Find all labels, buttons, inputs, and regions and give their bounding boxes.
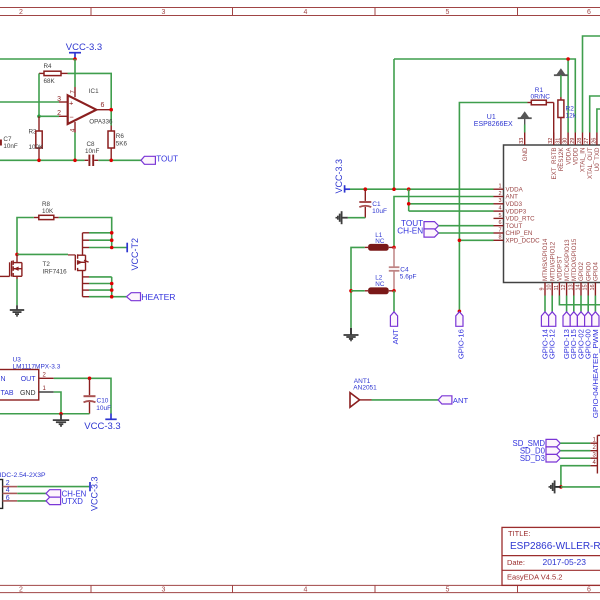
port GPIO-00 xyxy=(584,312,593,359)
svg-text:10uF: 10uF xyxy=(372,208,387,215)
capacitor C10 10uF xyxy=(84,378,112,413)
power flag VCC-3.3 rotated at pin1 xyxy=(334,159,350,194)
svg-text:1: 1 xyxy=(498,184,501,190)
antenna ANT1 AN2051 xyxy=(350,378,377,407)
power flag VCC-3.3 rotated at IDC xyxy=(89,476,99,511)
svg-text:5: 5 xyxy=(446,9,450,16)
node L1/ANT junction xyxy=(392,246,396,250)
wire U3 OUT to VCC xyxy=(54,378,111,413)
svg-text:13: 13 xyxy=(568,284,574,290)
wire GPIO-02 pin to port xyxy=(580,296,582,312)
title block xyxy=(502,527,600,585)
node R3 bottom junction xyxy=(37,159,41,163)
svg-text:TOUT: TOUT xyxy=(506,223,523,230)
port GPIO-14 xyxy=(540,312,549,359)
svg-text:R8: R8 xyxy=(42,201,51,208)
pin 10 MTDI/GPIO12 xyxy=(547,241,557,295)
wire VCC down to pin1 row xyxy=(393,59,395,189)
pin 2 ANT xyxy=(494,191,519,201)
port HEATER xyxy=(127,292,176,302)
pin 12 MTCK/GPIO13 xyxy=(561,239,571,296)
svg-text:XTAL_OUT: XTAL_OUT xyxy=(587,147,594,179)
wire op-amp pin4 to rail xyxy=(74,133,76,161)
port CH-EN xyxy=(46,489,86,498)
svg-text:R6: R6 xyxy=(116,133,125,140)
svg-text:6: 6 xyxy=(587,587,591,594)
node VCC top junction xyxy=(566,57,570,61)
svg-text:7: 7 xyxy=(498,227,501,233)
svg-text:VCC-3.3: VCC-3.3 xyxy=(84,421,120,432)
svg-text:TAB: TAB xyxy=(1,390,14,397)
svg-text:U1: U1 xyxy=(487,114,496,121)
svg-text:10K: 10K xyxy=(42,208,54,215)
wire VDD3/VDDP3 branch xyxy=(409,189,494,211)
svg-text:VDD_RTC: VDD_RTC xyxy=(506,216,536,223)
wire op-amp non-inverting input xyxy=(0,101,59,103)
svg-text:3: 3 xyxy=(498,198,501,204)
svg-text:MTDI/GPIO12: MTDI/GPIO12 xyxy=(549,241,556,281)
svg-text:GPIO4: GPIO4 xyxy=(593,262,600,281)
svg-text:2: 2 xyxy=(19,587,23,594)
wire SD_D3 to pin3 xyxy=(560,457,590,459)
svg-text:6: 6 xyxy=(101,102,105,109)
svg-text:15: 15 xyxy=(583,284,589,290)
power flag VCC-3.3 below U3 xyxy=(84,414,120,432)
wire ground row to right edge xyxy=(561,486,600,488)
svg-text:IC1: IC1 xyxy=(89,88,99,95)
wire L2 left lead xyxy=(351,290,365,292)
capacitor C4 5.6pF xyxy=(389,247,417,290)
capacitor C1 10uF xyxy=(359,189,387,218)
svg-text:XPD_DCDC: XPD_DCDC xyxy=(506,238,541,245)
pin 14 GPIO2 xyxy=(576,262,586,296)
svg-text:10uF: 10uF xyxy=(96,405,111,412)
svg-text:ESP8266EX: ESP8266EX xyxy=(474,121,513,128)
svg-text:ANT: ANT xyxy=(506,194,519,201)
svg-text:27: 27 xyxy=(584,138,590,144)
sheet border frame top band xyxy=(0,8,600,17)
svg-text:OUT: OUT xyxy=(21,376,37,383)
svg-text:+: + xyxy=(69,98,74,107)
svg-text:2017-05-23: 2017-05-23 xyxy=(543,557,587,567)
svg-text:U0_TXD: U0_TXD xyxy=(594,147,600,171)
wire Q1 source to ground xyxy=(16,279,18,305)
svg-text:OPA336: OPA336 xyxy=(89,118,113,125)
port GPIO-04/HEATER_PWM xyxy=(591,312,600,418)
ground below U3 xyxy=(53,414,69,426)
wire R4 to output node xyxy=(68,73,112,125)
port GPIO-02 xyxy=(576,312,585,359)
svg-text:SD_D3: SD_D3 xyxy=(520,454,545,463)
svg-text:10: 10 xyxy=(547,284,553,290)
svg-text:EasyEDA V4.5.2: EasyEDA V4.5.2 xyxy=(507,573,562,582)
svg-text:VDD3: VDD3 xyxy=(506,201,523,208)
pin 28 XTAL_IN xyxy=(577,133,587,173)
resistor R3 100K xyxy=(29,116,45,160)
wire antenna to ANT port xyxy=(372,399,439,401)
svg-text:MTCK/GPIO13: MTCK/GPIO13 xyxy=(564,239,571,281)
svg-text:VCC-3.3: VCC-3.3 xyxy=(89,476,99,511)
svg-text:HEATER: HEATER xyxy=(141,292,175,302)
svg-text:16: 16 xyxy=(590,284,596,290)
wire gate row to T2 xyxy=(17,253,68,255)
svg-text:3: 3 xyxy=(57,96,61,103)
wire GPIO-14 pin to port xyxy=(544,296,546,312)
capacitor C8 10nF xyxy=(85,141,100,166)
node ground rail junction xyxy=(59,412,63,416)
regulator U3 LM1117MPX-3.3 xyxy=(0,356,61,400)
svg-text:10nF: 10nF xyxy=(85,148,100,155)
svg-text:T2: T2 xyxy=(43,261,51,268)
ground at SD (left) xyxy=(549,480,561,493)
wire drain rows to bus xyxy=(89,233,127,248)
wire bottom rail left xyxy=(0,159,85,161)
svg-text:VCC-3.3: VCC-3.3 xyxy=(334,159,344,194)
node C10 junction xyxy=(88,377,92,381)
pin 16 GPIO4 xyxy=(590,262,600,296)
svg-text:N: N xyxy=(1,376,6,383)
pin 9 MTMS/GPIO14 xyxy=(540,238,550,295)
pin 27 XTAL_OUT xyxy=(584,133,594,180)
wire GPIO-00 pin to port xyxy=(587,296,589,312)
node op-amp output junction xyxy=(109,108,113,112)
svg-text:GPIO-12: GPIO-12 xyxy=(548,329,557,359)
pin 11 VDDPST xyxy=(554,256,564,296)
svg-text:NC: NC xyxy=(375,281,385,288)
svg-text:C1: C1 xyxy=(372,201,381,208)
port SD_SMD xyxy=(513,439,561,448)
svg-text:26: 26 xyxy=(591,138,597,144)
ground below L1/L2 xyxy=(344,328,359,341)
wire ANT down to port xyxy=(393,291,395,312)
svg-text:ESP2866-WLLER-RTD: ESP2866-WLLER-RTD xyxy=(510,541,600,552)
svg-text:ANT: ANT xyxy=(391,329,400,345)
connector P1 IDC-2.54-2X3P (cropped) xyxy=(0,472,46,508)
port GPIO-13 xyxy=(562,312,571,359)
svg-text:100K: 100K xyxy=(29,144,45,151)
port GPIO-16 (down) xyxy=(456,312,466,359)
pin 7 CHIP_EN xyxy=(494,227,533,237)
ground under Q1 xyxy=(10,305,24,316)
wire VDDA pin1 row xyxy=(350,188,494,190)
wire R4 left to inverting node xyxy=(38,73,40,116)
svg-text:4: 4 xyxy=(304,587,308,594)
svg-text:14: 14 xyxy=(576,284,582,290)
resistor R4 68K xyxy=(39,63,68,85)
svg-text:3: 3 xyxy=(162,9,166,16)
port TOUT / CH-EN double xyxy=(397,219,438,237)
svg-text:GND: GND xyxy=(20,390,36,397)
svg-text:VDDD: VDDD xyxy=(573,147,580,165)
wire U3 ground rail xyxy=(0,413,90,415)
wire R1 left to GPIO16 net xyxy=(459,103,527,312)
svg-text:5: 5 xyxy=(446,587,450,594)
svg-text:GND: GND xyxy=(522,147,529,161)
svg-text:VCC-3.3: VCC-3.3 xyxy=(66,42,102,53)
wire pin6 to UTXD xyxy=(17,500,46,502)
svg-text:TITLE:: TITLE: xyxy=(508,529,531,538)
svg-text:2: 2 xyxy=(57,110,61,117)
port SD_D3 xyxy=(520,454,560,463)
svg-text:33: 33 xyxy=(519,138,525,144)
svg-text:VDDP3: VDDP3 xyxy=(506,208,527,215)
wire GPIO-04 pin to port xyxy=(594,296,596,312)
node L2/ANT junction xyxy=(392,289,396,293)
svg-text:IRF7416: IRF7416 xyxy=(43,269,68,276)
svg-text:4: 4 xyxy=(304,9,308,16)
svg-text:9: 9 xyxy=(540,287,546,290)
port ANT (down) xyxy=(390,312,400,345)
svg-text:10nF: 10nF xyxy=(3,143,18,150)
svg-text:68K: 68K xyxy=(44,78,56,85)
pin 30 VDDA xyxy=(563,133,573,165)
power flag VCC-T2 rotated xyxy=(127,238,140,271)
port ANT (left) xyxy=(438,396,468,405)
svg-text:CHIP_EN: CHIP_EN xyxy=(506,230,533,237)
node SD ground junction xyxy=(559,485,563,489)
power flag VCC-3.3 xyxy=(66,42,102,58)
pin 33 GND xyxy=(519,133,529,162)
node gate junction xyxy=(15,253,19,257)
wire U0_TXD to right edge xyxy=(597,109,600,133)
node R6 bottom junction xyxy=(109,159,113,163)
ground left of C1 xyxy=(336,211,347,224)
pin 29 VDDD xyxy=(570,133,580,166)
node source bus junctions xyxy=(110,282,114,286)
svg-text:30: 30 xyxy=(563,138,569,144)
wire GPIO-13 pin to port xyxy=(566,296,568,312)
svg-text:31: 31 xyxy=(555,138,561,144)
svg-text:CH-EN: CH-EN xyxy=(397,227,423,236)
pin 13 MTDO/GPIO15 xyxy=(568,238,578,295)
wire C1 to ground xyxy=(348,217,366,219)
transistor T2 IRF7416 xyxy=(43,233,90,297)
wire SD_D0 to pin2 xyxy=(560,450,590,452)
connector SD card (cropped) xyxy=(590,435,600,473)
wire XTAL_OUT to right edge xyxy=(590,96,600,133)
pin 1 VDDA xyxy=(494,184,524,194)
svg-text:5: 5 xyxy=(498,213,501,219)
svg-text:GPIO2: GPIO2 xyxy=(578,262,585,281)
inductor L2 NC xyxy=(365,275,394,295)
wire R8 right to drain bus xyxy=(59,218,112,233)
wire GPIO-15 pin to port xyxy=(573,296,575,312)
svg-text:29: 29 xyxy=(570,138,576,144)
svg-text:12k: 12k xyxy=(566,112,577,119)
wire SD_SMD to pin1 xyxy=(560,442,590,444)
sheet border frame bottom band xyxy=(0,585,600,593)
wire to op-amp V+ xyxy=(74,59,76,87)
svg-text:U3: U3 xyxy=(13,356,22,363)
IC U1 ESP8266EX body xyxy=(474,114,600,283)
svg-text:8: 8 xyxy=(498,235,501,241)
node drain bus junctions xyxy=(110,231,114,235)
svg-text:VDDA: VDDA xyxy=(565,147,572,165)
pin 5 VDD_RTC (NC) xyxy=(494,213,536,223)
wire GPIO-12 pin to port xyxy=(551,296,553,312)
wire op-amp inverting input xyxy=(39,115,59,117)
resistor R8 10K xyxy=(34,201,59,220)
wire pin4 to CH-EN xyxy=(17,492,46,494)
node VCC vertical junction xyxy=(392,187,396,191)
wire XTAL_IN feed from right edge xyxy=(583,36,600,133)
svg-text:MTMS/GPIO14: MTMS/GPIO14 xyxy=(542,238,549,281)
svg-text:MTDO/GPIO15: MTDO/GPIO15 xyxy=(571,238,578,281)
wire pin2 to VCC flag xyxy=(17,486,89,488)
wire XPD_DCDC to GPIO16 net xyxy=(459,239,493,241)
pin 26 U0_TXD xyxy=(591,133,600,172)
svg-text:TOUT: TOUT xyxy=(156,155,178,164)
wire rail to TOUT port xyxy=(98,159,141,161)
svg-text:2: 2 xyxy=(498,191,501,197)
transistor Q1 (left MOSFET, cropped) xyxy=(0,254,22,279)
wire R8 left xyxy=(17,218,34,255)
svg-text:RES12K: RES12K xyxy=(558,147,565,172)
svg-text:UTXD: UTXD xyxy=(62,497,84,506)
svg-text:GPIO0: GPIO0 xyxy=(585,262,592,281)
wire U3 GND down xyxy=(54,392,61,414)
svg-text:5K6: 5K6 xyxy=(116,141,128,148)
pin 32 EXT_RSTB xyxy=(548,133,558,180)
wire VCC branch to VDDD xyxy=(568,59,575,133)
port UTXD xyxy=(46,497,83,506)
wire CH-EN to pin7 xyxy=(439,232,494,234)
wire VDDPST to right edge xyxy=(559,296,600,305)
svg-text:5.6pF: 5.6pF xyxy=(400,273,417,280)
node pin4 rail junction xyxy=(73,159,77,163)
svg-text:6: 6 xyxy=(498,220,501,226)
node inverting input junction xyxy=(37,115,41,119)
node VDD3 row junction xyxy=(407,202,411,206)
wire L1/L2 left tie xyxy=(351,247,365,328)
node VDD3 branch junction xyxy=(407,187,411,191)
wire VCC top distribution xyxy=(394,59,568,133)
svg-text:6: 6 xyxy=(587,9,591,16)
resistor R2 12k xyxy=(558,97,577,145)
svg-text:IDC-2.54-2X3P: IDC-2.54-2X3P xyxy=(0,472,46,479)
capacitor C7 10nF (cropped at edge) xyxy=(1,136,18,150)
node XPD junction xyxy=(458,239,462,243)
wire ANT pin2 row xyxy=(394,197,494,248)
pin 3 VDD3 xyxy=(494,198,523,208)
node C1 junction xyxy=(364,187,368,191)
pin 4 VDDP3 xyxy=(494,206,527,216)
resistor R1 0R/NC xyxy=(528,87,554,145)
wire SD pin4 to ground xyxy=(561,466,591,487)
svg-text:C4: C4 xyxy=(400,266,409,273)
svg-text:R4: R4 xyxy=(44,63,53,70)
svg-text:AN2051: AN2051 xyxy=(353,384,377,391)
power arrow above R2 xyxy=(554,68,568,97)
resistor R6 5K6 xyxy=(108,126,128,161)
wire TOUT to pin6 xyxy=(439,225,494,227)
svg-text:32: 32 xyxy=(548,138,554,144)
svg-text:28: 28 xyxy=(577,138,583,144)
svg-text:12: 12 xyxy=(561,284,567,290)
svg-text:VCC-T2: VCC-T2 xyxy=(130,238,140,271)
pin 15 GPIO0 xyxy=(583,262,593,296)
svg-text:2: 2 xyxy=(19,9,23,16)
svg-text:ANT: ANT xyxy=(453,396,469,405)
svg-text:VDDA: VDDA xyxy=(506,186,524,193)
pin 31 RES12K xyxy=(555,138,565,172)
svg-text:−: − xyxy=(69,112,74,121)
node GPIO-16 port junction xyxy=(458,310,462,314)
node VCC junction xyxy=(73,57,77,61)
svg-text:C10: C10 xyxy=(97,398,109,405)
port TOUT xyxy=(141,155,178,165)
inductor L1 NC xyxy=(365,232,394,251)
svg-text:EXT_RSTB: EXT_RSTB xyxy=(551,148,558,180)
svg-text:3: 3 xyxy=(162,587,166,594)
port SD_D0 xyxy=(520,447,560,456)
svg-text:GPIO-16: GPIO-16 xyxy=(456,329,465,359)
svg-text:GPIO-04/HEATER_PWM: GPIO-04/HEATER_PWM xyxy=(591,329,600,418)
svg-text:Date:: Date: xyxy=(507,558,525,567)
svg-text:XTAL_IN: XTAL_IN xyxy=(580,148,587,173)
svg-text:VDDPST: VDDPST xyxy=(557,256,564,281)
power arrow on GND pin33 xyxy=(518,111,532,132)
wire VCC-3.3 rail top-left xyxy=(0,58,75,60)
wire source rows to bus xyxy=(89,277,127,297)
node L2 left junction xyxy=(349,289,353,293)
op-amp IC1 OPA336 xyxy=(57,87,113,133)
pin 6 TOUT xyxy=(494,220,523,230)
svg-text:4: 4 xyxy=(498,206,501,212)
port GPIO-12 xyxy=(548,312,557,359)
svg-text:11: 11 xyxy=(554,285,560,291)
pin 8 XPD_DCDC xyxy=(494,235,541,245)
port GPIO-15 xyxy=(569,312,578,359)
svg-text:C7: C7 xyxy=(3,136,12,143)
